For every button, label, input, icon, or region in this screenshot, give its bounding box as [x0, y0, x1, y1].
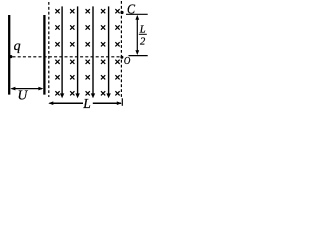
E-field arrow 1 — [60, 6, 64, 98]
svg-text:O: O — [124, 55, 130, 67]
dimension U arrow — [10, 87, 43, 91]
svg-text:q: q — [14, 39, 21, 54]
tick at C level — [126, 13, 148, 15]
dimension L/2 arrow — [135, 15, 139, 55]
label L/2 fraction — [139, 25, 147, 48]
field boundary left dashed — [48, 2, 50, 97]
B-field crosses column 4 — [101, 9, 105, 95]
charge q dot — [9, 55, 12, 58]
particle path dashed — [13, 56, 121, 58]
tick at O level — [129, 55, 148, 57]
B-field crosses column 2 — [70, 9, 74, 95]
node O dot — [120, 56, 123, 59]
B-field crosses column 1 — [55, 9, 59, 95]
node C dot — [120, 11, 123, 14]
plate right — [43, 15, 45, 95]
field boundary right dashed — [120, 1, 122, 99]
plate left — [8, 15, 10, 95]
E-field arrow 2 — [75, 6, 79, 98]
B-field crosses column 5 — [115, 9, 119, 95]
E-field arrow 3 — [91, 6, 95, 98]
svg-text:2: 2 — [140, 37, 146, 48]
dimension L arrow — [48, 98, 122, 106]
B-field crosses column 3 — [86, 9, 90, 95]
svg-text:L: L — [82, 96, 91, 111]
E-field arrow 4 — [106, 6, 110, 98]
svg-text:U: U — [18, 88, 29, 103]
